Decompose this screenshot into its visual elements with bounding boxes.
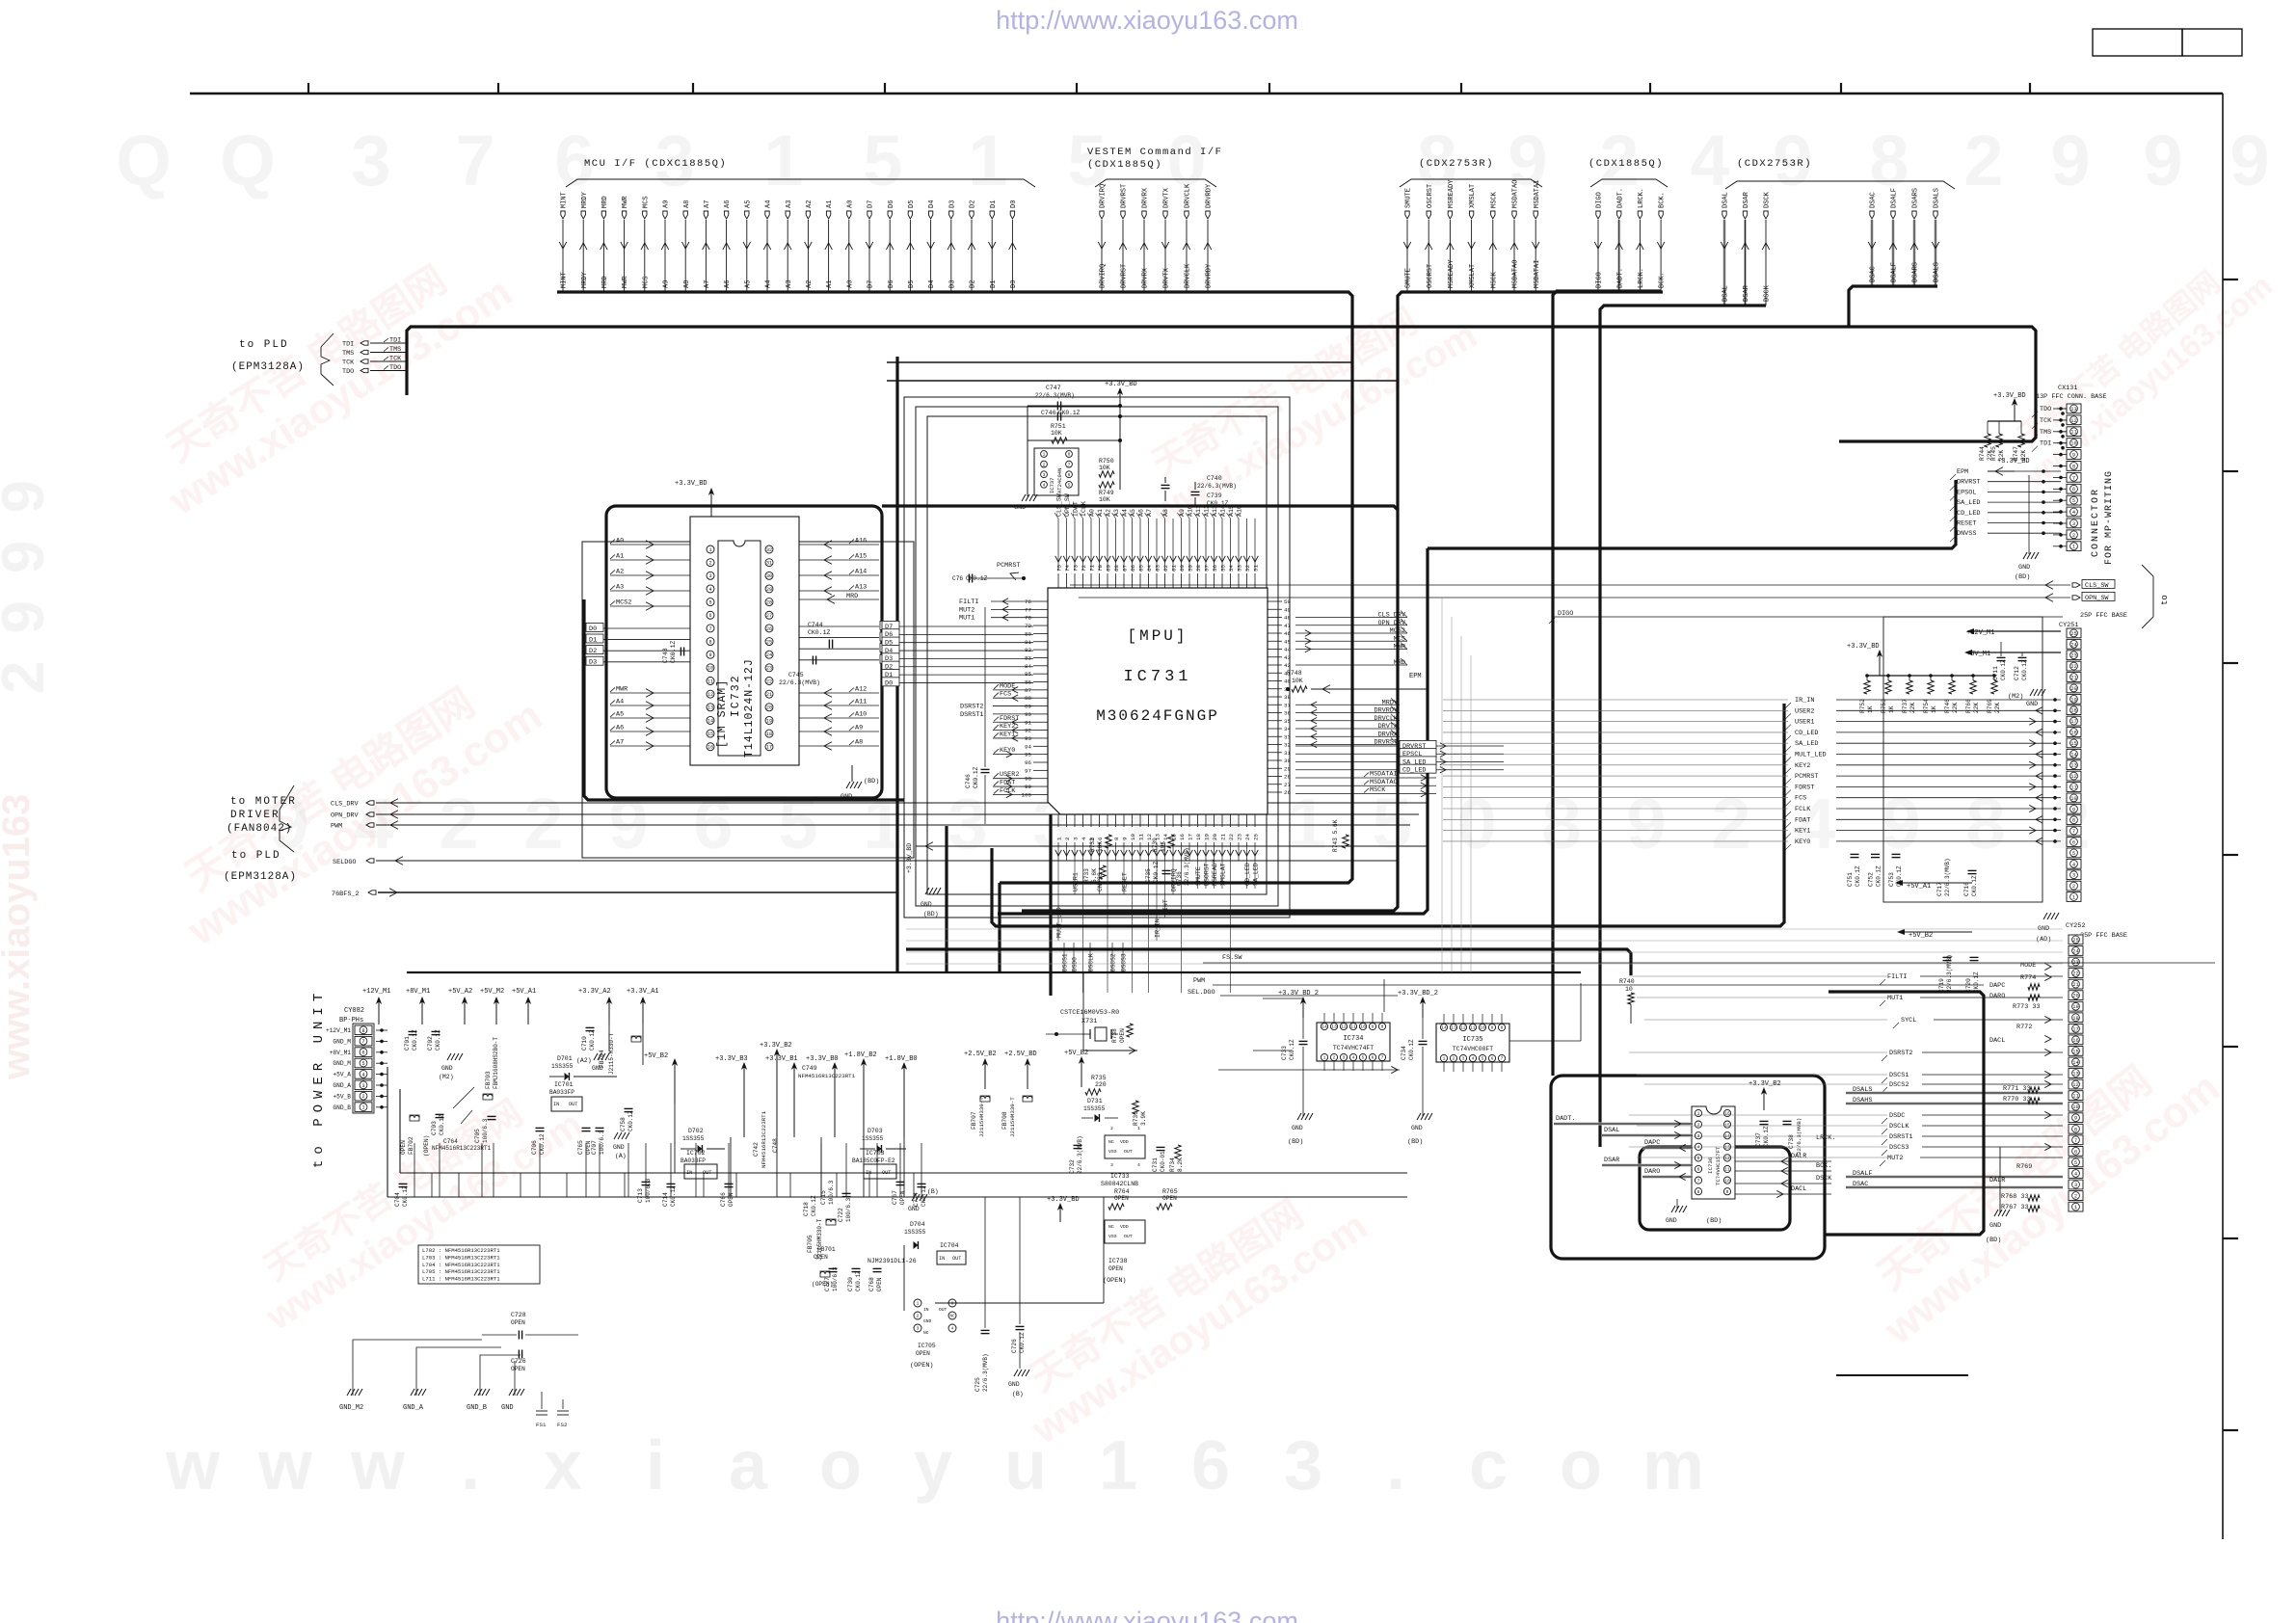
- svg-text:CLS_DRV: CLS_DRV: [1377, 612, 1405, 620]
- svg-text:FB702: FB702: [408, 1136, 414, 1155]
- svg-text:USER2: USER2: [1795, 707, 1814, 715]
- svg-text:VSS: VSS: [1108, 1149, 1117, 1155]
- svg-text:+3.3V_B2: +3.3V_B2: [760, 1042, 792, 1050]
- svg-text:9: 9: [1726, 1189, 1729, 1195]
- svg-text:C707: C707: [591, 1140, 598, 1155]
- note box L702-L711 parts list: [418, 1245, 540, 1284]
- ground GND (M2): [439, 1053, 463, 1080]
- svg-text:MSDATAI: MSDATAI: [1370, 771, 1398, 779]
- ground GND (AD) label: [2036, 913, 2059, 944]
- svg-text:10: 10: [2070, 796, 2076, 802]
- ic IC703 BA185C0FP: [852, 1150, 896, 1179]
- svg-text:w: w: [165, 1427, 221, 1504]
- svg-text:MRD: MRD: [601, 196, 609, 208]
- svg-text:i: i: [646, 1427, 665, 1504]
- svg-text:BCK.: BCK.: [1659, 272, 1667, 288]
- svg-text:2: 2: [2074, 1194, 2077, 1200]
- svg-text:14: 14: [2070, 752, 2076, 758]
- svg-text:(BD): (BD): [1288, 1138, 1303, 1146]
- svg-text:+5V_B2: +5V_B2: [644, 1052, 668, 1060]
- svg-text:C76: C76: [952, 575, 963, 582]
- mpu bottom pins 1-25: [1055, 814, 1260, 861]
- svg-text:5: 5: [2072, 498, 2075, 504]
- svg-text:D7: D7: [868, 200, 875, 208]
- svg-text:9: 9: [1881, 784, 1920, 864]
- svg-text:44: 44: [1284, 647, 1291, 653]
- svg-text:22/6.3(MVB): 22/6.3(MVB): [1035, 392, 1075, 399]
- svg-text:IR_IN: IR_IN: [1795, 697, 1814, 705]
- capacitor C726b: [1011, 1197, 1026, 1369]
- signal CLS_SW long wire: [1070, 579, 2115, 589]
- resistor R749 10K: [1099, 482, 1114, 503]
- svg-text:10K: 10K: [1160, 841, 1166, 852]
- svg-text:SMUTE: SMUTE: [1405, 188, 1413, 208]
- svg-text:FS2: FS2: [557, 1422, 568, 1428]
- svg-text:TDI: TDI: [389, 337, 401, 345]
- wire bus DIGO group down to IC739 area: [1553, 291, 1661, 1076]
- svg-text:13: 13: [1724, 1144, 1730, 1150]
- svg-text:C766: C766: [720, 1192, 727, 1207]
- svg-text:FILTI: FILTI: [959, 599, 978, 606]
- svg-text:(A): (A): [615, 1153, 627, 1159]
- svg-text:A1: A1: [826, 200, 834, 208]
- svg-text:89: 89: [1025, 704, 1031, 710]
- svg-text:C748: C748: [772, 1138, 779, 1153]
- resistor array R752 R753 R737 R754 R746 R766 R769: [1859, 674, 2001, 713]
- svg-text:w: w: [257, 1427, 313, 1504]
- svg-text:CSTCE16M0V53-R0: CSTCE16M0V53-R0: [1060, 1009, 1119, 1017]
- svg-text:DSALF: DSALF: [1853, 1170, 1872, 1178]
- svg-text:9: 9: [708, 652, 711, 658]
- svg-text:C736: C736: [1176, 871, 1183, 886]
- svg-text:R749: R749: [1099, 490, 1114, 496]
- svg-text:22: 22: [1228, 834, 1235, 840]
- svg-text:DRVRST: DRVRST: [1375, 739, 1398, 747]
- svg-text:R754: R754: [1923, 699, 1930, 713]
- svg-text:GND: GND: [1292, 1125, 1303, 1131]
- svg-text:D3: D3: [589, 659, 597, 667]
- svg-text:MSDATAO: MSDATAO: [1370, 779, 1398, 786]
- svg-text:DSRST1: DSRST1: [960, 711, 983, 719]
- svg-text:CD_LED: CD_LED: [1795, 730, 1818, 737]
- svg-text:S80842CLNB: S80842CLNB: [1101, 1181, 1138, 1187]
- svg-text:TC74VHC157FT: TC74VHC157FT: [1715, 1146, 1722, 1185]
- power +5V_B2 arrow power: [644, 1052, 678, 1104]
- svg-text:IC735: IC735: [1462, 1036, 1482, 1044]
- capacitor C760 CK0.1Z: [952, 574, 988, 583]
- svg-text:21: 21: [1219, 834, 1226, 840]
- svg-text:A6: A6: [616, 725, 624, 732]
- resistor R765 OPEN: [1157, 1188, 1178, 1210]
- svg-text:14: 14: [1441, 1025, 1447, 1031]
- svg-text:BCK.: BCK.: [1816, 1162, 1831, 1170]
- svg-text:82: 82: [1025, 647, 1031, 653]
- signal PCMRST: [974, 562, 1026, 580]
- svg-text:2999: 2999: [0, 453, 57, 694]
- svg-text:CK0.1Z: CK0.1Z: [855, 1270, 862, 1291]
- svg-text:D6: D6: [888, 200, 895, 208]
- svg-text:13: 13: [2070, 407, 2076, 412]
- signal OPN_SW long wire: [1079, 592, 2115, 601]
- svg-text:PWM: PWM: [331, 823, 342, 831]
- svg-text:+3.3V_BD: +3.3V_BD: [1047, 1196, 1080, 1204]
- svg-text:DSCLK: DSCLK: [1088, 953, 1095, 971]
- signal EPM arrow at mpu: [1311, 548, 1428, 693]
- svg-text:OUT: OUT: [952, 1256, 961, 1262]
- power +3.3V_BD at cx131: [1988, 392, 2026, 421]
- resistor R734 8.2K: [1169, 1145, 1184, 1172]
- svg-text:4: 4: [1690, 120, 1729, 200]
- svg-text:DRVRST: DRVRST: [1957, 479, 1980, 487]
- svg-text:J2115HM330-T: J2115HM330-T: [1009, 1097, 1016, 1137]
- svg-text:A0: A0: [1088, 509, 1095, 517]
- svg-text:A8: A8: [855, 739, 863, 747]
- svg-text:NJM2391DL1-26: NJM2391DL1-26: [868, 1258, 917, 1264]
- svg-text:3: 3: [1043, 472, 1046, 478]
- svg-text:OSCRST: OSCRST: [1427, 264, 1434, 288]
- svg-text:7: 7: [1068, 462, 1071, 467]
- mpu bottom rotated labels: [1055, 859, 1259, 941]
- resistor R732 10K: [1089, 835, 1111, 852]
- svg-text:A12: A12: [855, 686, 867, 694]
- svg-text:(EPM3128A): (EPM3128A): [231, 361, 305, 373]
- svg-text:0: 0: [1456, 784, 1496, 864]
- svg-text:DSCK: DSCK: [1764, 284, 1772, 302]
- svg-text:+2.5V_B2: +2.5V_B2: [964, 1051, 997, 1058]
- svg-text:16: 16: [1724, 1111, 1730, 1117]
- svg-text:DSALF: DSALF: [1891, 262, 1899, 282]
- svg-text:SEL.DGO: SEL.DGO: [1188, 989, 1215, 997]
- svg-text:DADT.: DADT.: [1616, 268, 1624, 288]
- svg-text:7: 7: [2074, 1138, 2077, 1144]
- svg-text:67: 67: [1121, 565, 1128, 572]
- svg-text:TCK: TCK: [389, 356, 402, 363]
- svg-text:DARO: DARO: [1989, 993, 2005, 1000]
- svg-text:46: 46: [1284, 630, 1291, 637]
- svg-text:MSCK: MSCK: [1370, 786, 1386, 794]
- svg-text:8: 8: [1965, 784, 2005, 864]
- capacitor C733: [1281, 998, 1308, 1079]
- svg-text:2: 2: [1711, 784, 1750, 864]
- svg-text:CK0.1Z: CK0.1Z: [1289, 1039, 1295, 1060]
- svg-text:3: 3: [1110, 1162, 1113, 1168]
- svg-text:L704 : NFM4516R13C223RT1: L704 : NFM4516R13C223RT1: [422, 1262, 500, 1268]
- svg-text:1K: 1K: [1867, 705, 1874, 713]
- svg-text:GND_M2: GND_M2: [339, 1404, 363, 1412]
- svg-text:SA_LED: SA_LED: [1957, 499, 1980, 507]
- svg-text:9: 9: [1626, 784, 1666, 864]
- svg-text:13: 13: [707, 705, 713, 711]
- svg-text:4: 4: [1472, 1056, 1475, 1062]
- mpu right pins 50-26: [1268, 599, 1407, 796]
- svg-text:6: 6: [1191, 1427, 1230, 1504]
- svg-text:D701: D701: [557, 1055, 573, 1062]
- svg-text:MSREADY: MSREADY: [1212, 859, 1218, 886]
- svg-text:8: 8: [1541, 784, 1581, 864]
- svg-text:R737: R737: [1902, 699, 1909, 713]
- resistor R750 10K: [1099, 458, 1114, 477]
- svg-text:IN: IN: [939, 1256, 945, 1262]
- svg-text:6: 6: [1491, 1056, 1494, 1062]
- svg-text:(BD): (BD): [923, 911, 939, 918]
- mpu left pins 76-100: [959, 599, 1048, 799]
- ground GND (BD) at IC735: [1407, 1079, 1432, 1146]
- capacitor C735: [1145, 861, 1171, 883]
- capacitor C732: [1069, 1135, 1083, 1174]
- svg-text:10: 10: [1625, 986, 1633, 993]
- svg-text:64: 64: [1146, 565, 1153, 572]
- svg-text:EPM: EPM: [1409, 673, 1422, 680]
- svg-text:MWR: MWR: [1394, 644, 1405, 652]
- svg-text:DSAL: DSAL: [1722, 192, 1730, 208]
- svg-text:DARO: DARO: [1644, 1168, 1660, 1176]
- svg-text:OPEN: OPEN: [916, 1350, 930, 1357]
- svg-text:MSDATAO: MSDATAO: [1512, 180, 1520, 208]
- svg-text:C758: C758: [620, 1117, 627, 1131]
- svg-text:D2: D2: [970, 200, 977, 208]
- svg-text:11: 11: [707, 678, 713, 684]
- svg-text:24: 24: [1244, 834, 1251, 840]
- svg-text:MSREADY: MSREADY: [1448, 179, 1455, 208]
- wire bus CDX2753R-1: [1022, 292, 1663, 911]
- svg-text:D1: D1: [589, 636, 597, 644]
- svg-text:A5: A5: [616, 711, 624, 719]
- svg-text:4: 4: [1352, 1055, 1355, 1061]
- capacitor C746 left of mpu: [965, 607, 990, 824]
- svg-text:TMS: TMS: [342, 350, 354, 358]
- svg-text:+12V_M1: +12V_M1: [326, 1027, 351, 1034]
- svg-text:CD_LED: CD_LED: [1402, 767, 1426, 775]
- svg-text:(FAN8042): (FAN8042): [227, 823, 292, 835]
- svg-text:MWR: MWR: [616, 686, 627, 694]
- resistor R747 22K: [2013, 421, 2027, 461]
- svg-text:CK0.1Z: CK0.1Z: [402, 1185, 409, 1207]
- svg-text:73: 73: [1072, 565, 1079, 572]
- svg-text:3: 3: [2072, 521, 2075, 527]
- svg-text:5: 5: [361, 1061, 364, 1067]
- svg-text:27: 27: [766, 613, 772, 619]
- svg-text:DSAC: DSAC: [1853, 1181, 1868, 1188]
- svg-text:CK0.1Z: CK0.1Z: [1971, 875, 1978, 896]
- svg-text:18: 18: [2072, 1016, 2078, 1022]
- svg-text:5: 5: [1697, 1156, 1700, 1161]
- svg-text:w: w: [350, 1427, 406, 1504]
- svg-text:DSCS3: DSCS3: [1121, 953, 1128, 971]
- svg-text:25P FFC BASE: 25P FFC BASE: [2080, 612, 2127, 620]
- svg-text:C745: C745: [788, 672, 804, 678]
- svg-text:TCK: TCK: [2040, 417, 2052, 425]
- svg-text:9: 9: [1372, 1024, 1375, 1030]
- svg-text:A2: A2: [806, 280, 814, 288]
- svg-text:FCS: FCS: [1000, 691, 1011, 699]
- svg-text:A7: A7: [704, 280, 711, 288]
- svg-text:CK0.1Z: CK0.1Z: [973, 766, 979, 788]
- svg-text:A0: A0: [846, 200, 854, 208]
- power rail arrows power unit: [362, 988, 659, 1024]
- svg-text:95: 95: [1025, 752, 1031, 758]
- svg-text:5: 5: [2072, 851, 2075, 857]
- svg-text:C727: C727: [824, 1277, 831, 1291]
- svg-text:R769: R769: [1987, 699, 1993, 713]
- svg-text:C711: C711: [1992, 666, 1999, 680]
- svg-text:21: 21: [2072, 982, 2078, 988]
- ic IC737 AT24C04N: [311, 381, 2215, 1428]
- svg-text:C722: C722: [838, 1208, 844, 1222]
- svg-text:A14: A14: [855, 569, 867, 576]
- capacitor C742 C748 C749: [753, 1065, 856, 1168]
- svg-text:USER1: USER1: [1795, 719, 1814, 727]
- svg-text:28: 28: [766, 599, 772, 605]
- svg-text:2: 2: [1333, 1055, 1336, 1061]
- svg-text:DRVTX: DRVTX: [1378, 723, 1398, 731]
- svg-text:NFM4516R13C223RT1: NFM4516R13C223RT1: [761, 1110, 767, 1168]
- svg-text:MCS: MCS: [642, 196, 650, 208]
- svg-text:8: 8: [2072, 818, 2075, 824]
- svg-text:30: 30: [766, 573, 772, 579]
- interface to PLD (EPM3128A) SELDGO: [224, 850, 1398, 883]
- svg-text:C746: C746: [1041, 410, 1056, 416]
- svg-text:Q: Q: [116, 120, 172, 200]
- svg-text:19: 19: [766, 718, 772, 724]
- svg-text:20: 20: [2070, 686, 2076, 692]
- capacitors C751 C752 C753: [1847, 854, 1903, 887]
- ground GND (B) right: [908, 1188, 939, 1212]
- svg-text:MINT: MINT: [561, 192, 569, 208]
- svg-text:1: 1: [1443, 1056, 1446, 1062]
- ground GND (BD) inside IC739 area: [1666, 1199, 1722, 1225]
- svg-text:22: 22: [766, 678, 772, 684]
- svg-text:D6: D6: [888, 280, 895, 288]
- mpu right MS rows: [1295, 771, 1436, 797]
- svg-text:43: 43: [1284, 654, 1291, 661]
- capacitor C743: [662, 640, 684, 663]
- svg-text:10K: 10K: [1051, 430, 1062, 437]
- svg-text:79: 79: [1025, 623, 1031, 629]
- svg-text:R734: R734: [1169, 1157, 1176, 1172]
- svg-text:Q: Q: [220, 120, 276, 200]
- svg-text:D2: D2: [589, 648, 597, 655]
- svg-text:22/6.3(MVB): 22/6.3(MVB): [1184, 847, 1190, 886]
- svg-text:DRIVER: DRIVER: [230, 810, 280, 821]
- svg-text:22K: 22K: [1994, 703, 2001, 713]
- svg-text:2: 2: [1697, 1122, 1700, 1128]
- svg-text:A7: A7: [616, 739, 624, 747]
- svg-text:C712: C712: [2014, 666, 2020, 680]
- capacitor C739: [1191, 482, 1229, 507]
- svg-text:15: 15: [1724, 1122, 1730, 1128]
- wire nested rectangles around MPU: [582, 362, 1398, 918]
- wire bottom long bus y=1009: [407, 971, 1581, 973]
- svg-text:C768: C768: [868, 1277, 875, 1291]
- ferrite FB703: [483, 1037, 499, 1100]
- svg-text:(BD): (BD): [1986, 1237, 2001, 1244]
- svg-text:A8: A8: [683, 200, 691, 208]
- svg-text:MCS: MCS: [1394, 635, 1405, 643]
- power +3.3V rails: [715, 1042, 918, 1137]
- svg-text:NC: NC: [1108, 1139, 1114, 1145]
- svg-text:D1: D1: [990, 280, 998, 288]
- svg-text:R738: R738: [1111, 1028, 1118, 1043]
- svg-text:CLS_DRV: CLS_DRV: [331, 801, 359, 809]
- svg-text:22/6.3(MVB): 22/6.3(MVB): [779, 679, 820, 686]
- wire SRAM left vertical: [584, 599, 904, 800]
- svg-text:100/6.3: 100/6.3: [828, 1180, 835, 1205]
- resistor R738 OPEN: [1111, 1024, 1133, 1043]
- svg-text:NC: NC: [1108, 1224, 1114, 1230]
- capacitor C728 OPEN: [482, 1312, 578, 1340]
- svg-text:LRCK.: LRCK.: [1638, 188, 1645, 208]
- svg-text:20: 20: [2072, 994, 2078, 999]
- power +3.3V_BD at SRAM: [675, 480, 714, 517]
- ground GND (BD) below mpu: [921, 888, 941, 918]
- power +5V_A1: [1895, 880, 1972, 891]
- wire cy252 thick bus: [1825, 992, 1984, 1235]
- gray signal rows at IC736: [1554, 1115, 1693, 1181]
- svg-text:1: 1: [968, 120, 1007, 200]
- connector group VESTEM Command I/F (CDX1885Q): [1087, 146, 1222, 292]
- svg-text:+5V_A1: +5V_A1: [1907, 883, 1931, 891]
- svg-text:+8V_M1: +8V_M1: [406, 988, 430, 996]
- svg-text:3: 3: [948, 784, 987, 864]
- signal 76BFS_2: [332, 889, 897, 898]
- svg-text:2: 2: [1043, 462, 1046, 467]
- svg-text:A15: A15: [855, 553, 867, 561]
- svg-text:C701: C701: [404, 1036, 411, 1051]
- svg-text:C706: C706: [531, 1140, 538, 1155]
- svg-text:48: 48: [1284, 615, 1291, 622]
- svg-text:A13: A13: [855, 584, 867, 592]
- resistor R740 10: [1619, 978, 1635, 1024]
- svg-text:OUT: OUT: [939, 1307, 948, 1313]
- svg-text:+5V_B2: +5V_B2: [1909, 932, 1933, 940]
- diode D701 1SS355: [549, 1055, 617, 1080]
- svg-text:A11: A11: [855, 699, 867, 706]
- svg-text:10K: 10K: [1097, 841, 1104, 852]
- svg-text:C737: C737: [1755, 1132, 1762, 1147]
- svg-text:DSAR: DSAR: [1743, 191, 1750, 208]
- svg-text:T14L1024N-12J: T14L1024N-12J: [743, 658, 756, 758]
- sram data rows right D7-D4: [799, 621, 897, 664]
- svg-text:13: 13: [2072, 1072, 2078, 1078]
- svg-text:DSARS: DSARS: [1912, 262, 1920, 282]
- svg-text:10: 10: [2070, 441, 2076, 447]
- svg-text:+3.3V_BD_2: +3.3V_BD_2: [1278, 990, 1319, 998]
- svg-text:DACL: DACL: [1989, 1037, 2005, 1045]
- svg-text:11: 11: [2070, 430, 2076, 436]
- svg-text:A4: A4: [765, 200, 773, 208]
- svg-text:65: 65: [1137, 565, 1144, 572]
- svg-text:GND: GND: [1411, 1125, 1423, 1131]
- svg-text:MUT1: MUT1: [1887, 995, 1903, 1002]
- svg-text:4: 4: [1081, 837, 1087, 840]
- svg-text:D2: D2: [970, 280, 977, 288]
- svg-text:GND_A: GND_A: [403, 1404, 424, 1412]
- svg-text:FB704: FB704: [599, 1050, 605, 1068]
- svg-text:DSAR: DSAR: [1743, 284, 1750, 302]
- resistor R764 OPEN: [1108, 1188, 1130, 1210]
- svg-text:76BFS_2: 76BFS_2: [332, 891, 360, 898]
- title block boxes top right: [2093, 29, 2242, 56]
- svg-text:.: .: [461, 1427, 480, 1504]
- svg-text:+3.3V_BD: +3.3V_BD: [1105, 381, 1137, 388]
- svg-text:1: 1: [917, 1301, 920, 1307]
- svg-text:D0: D0: [589, 625, 597, 633]
- capacitor C725: [974, 1197, 990, 1392]
- svg-text:VESTEM Command I/F: VESTEM Command I/F: [1087, 146, 1222, 158]
- svg-text:8: 8: [1697, 1189, 1700, 1195]
- resistor R736 3.9K: [1133, 1101, 1147, 1126]
- svg-text:C725: C725: [974, 1377, 981, 1392]
